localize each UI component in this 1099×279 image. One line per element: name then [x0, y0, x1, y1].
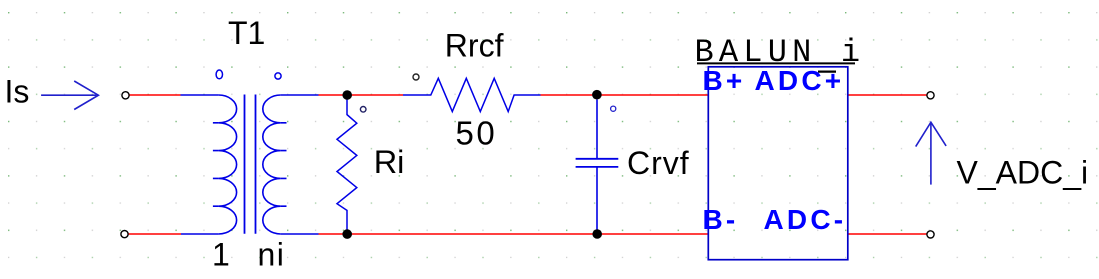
- svg-text:ADC+: ADC+: [755, 65, 845, 96]
- svg-text:T1: T1: [228, 15, 265, 51]
- svg-text:50: 50: [456, 115, 498, 152]
- svg-text:Ri: Ri: [374, 144, 405, 180]
- svg-text:ADC-: ADC-: [764, 204, 847, 235]
- svg-text:B-: B-: [703, 204, 739, 235]
- svg-text:ni: ni: [258, 236, 286, 272]
- svg-text:V_ADC_i: V_ADC_i: [957, 155, 1089, 191]
- svg-text:Rrcf: Rrcf: [445, 28, 504, 64]
- svg-text:B+: B+: [703, 65, 746, 96]
- svg-text:Is: Is: [5, 73, 30, 109]
- svg-text:1: 1: [212, 236, 230, 272]
- svg-text:Crvf: Crvf: [627, 145, 690, 181]
